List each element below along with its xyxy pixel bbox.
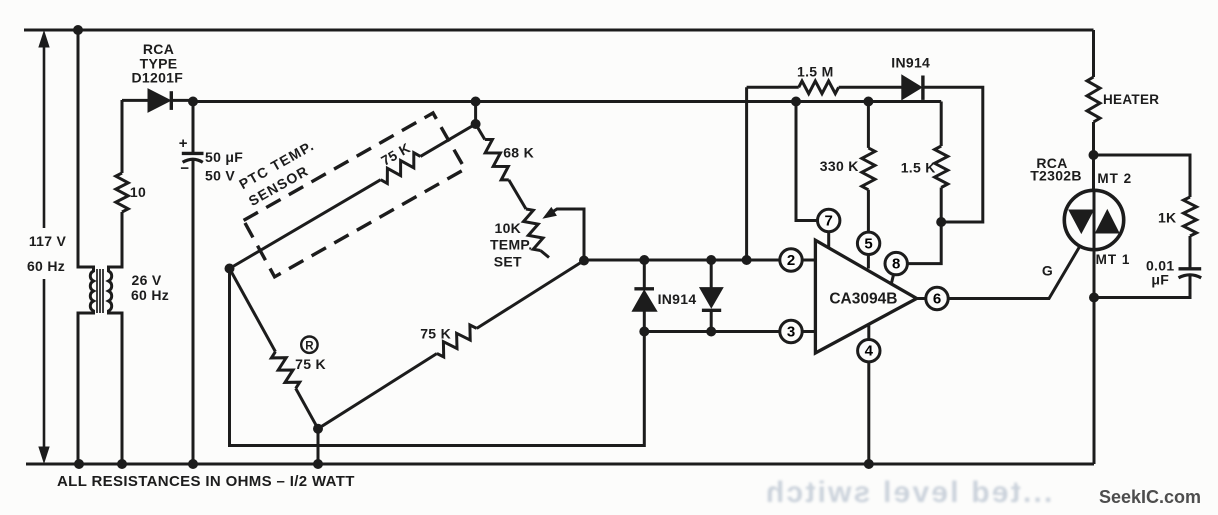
- label circled R: [301, 337, 317, 353]
- label + polarity: [179, 135, 188, 152]
- wire feedback vertical: [745, 87, 748, 260]
- wire bridge apex stub: [474, 102, 477, 125]
- svg-text:1K: 1K: [1158, 209, 1177, 225]
- junction 1.5K / pin8 / diode: [936, 217, 946, 227]
- wire rectified supply rail: [193, 100, 941, 103]
- svg-text:10K: 10K: [495, 220, 522, 236]
- wire bridge left node to pin3 line: [230, 269, 645, 446]
- label SET: [494, 254, 522, 270]
- junction pin2 / clamp 2: [706, 255, 716, 265]
- label 330 K: [820, 158, 859, 174]
- svg-text:75 K: 75 K: [420, 326, 451, 342]
- op-amp U1 CA3094B triangle: [815, 240, 916, 353]
- transformer T1 primary winding: [78, 30, 94, 464]
- PTC sensor dashed outline: [244, 113, 465, 277]
- junction ground / bridge: [313, 459, 323, 469]
- svg-text:T2302B: T2302B: [1030, 168, 1082, 184]
- svg-text:4: 4: [865, 343, 874, 360]
- pin 6: [926, 287, 948, 309]
- transformer T1 core: [97, 269, 103, 313]
- svg-text:SET: SET: [494, 254, 522, 270]
- resistor 10: [116, 100, 128, 212]
- label 50 V: [205, 168, 235, 184]
- pin 4: [858, 340, 880, 362]
- resistor 75K PTC sensor element: [230, 124, 476, 269]
- resistor 1.5M feedback: [747, 81, 902, 94]
- wire diode column to pin 3: [644, 330, 815, 333]
- label 60 Hz (primary): [27, 258, 65, 274]
- diode CR1 D1201F: [122, 89, 193, 112]
- wire pin8 branch: [892, 222, 942, 283]
- wire bridge right node to pin 2: [584, 259, 815, 262]
- svg-text:117 V: 117 V: [29, 233, 67, 249]
- svg-text:2: 2: [787, 252, 795, 269]
- svg-text:R: R: [305, 340, 314, 352]
- label 1.5 M: [797, 64, 834, 80]
- diode CR3 1N914 (clamp down): [700, 260, 723, 332]
- svg-text:3: 3: [787, 324, 795, 341]
- label MT1: [1096, 252, 1131, 267]
- svg-text:ALL RESISTANCES IN OHMS – I/2: ALL RESISTANCES IN OHMS – I/2 WATT: [57, 473, 355, 490]
- junction MT1 / snubber: [1089, 293, 1099, 303]
- junction rail2 / 330K: [863, 97, 873, 107]
- svg-text:TEMP.: TEMP.: [490, 236, 532, 252]
- junction pin2 / clamp 1: [639, 255, 649, 265]
- label 75 K (sensor): [378, 140, 413, 169]
- label 1K: [1158, 209, 1177, 225]
- junction ground / primary: [74, 459, 84, 469]
- svg-text:−: −: [180, 160, 189, 177]
- wire top supply rail: [24, 29, 1094, 32]
- label 1.5 K: [901, 159, 936, 175]
- svg-text:MT 2: MT 2: [1097, 171, 1132, 186]
- label G gate: [1042, 263, 1053, 279]
- label 0.01: [1146, 257, 1174, 273]
- label TYPE: [140, 56, 178, 72]
- svg-text:50 μF: 50 μF: [205, 149, 243, 165]
- svg-text:SeekIC.com: SeekIC.com: [1099, 487, 1201, 507]
- label 75 K (left arm): [295, 356, 326, 372]
- junction pin3 / clamp 2: [706, 327, 716, 337]
- junction pin2 / feedback: [742, 255, 752, 265]
- pin 2: [780, 249, 802, 271]
- svg-text:6: 6: [933, 291, 941, 308]
- junction bridge left node: [225, 264, 235, 274]
- label CA3094B: [829, 291, 897, 308]
- capacitor C1 50uF: [182, 102, 204, 465]
- label 75 K (right arm): [420, 326, 451, 342]
- label D1201F: [131, 70, 183, 86]
- resistor 68K: [476, 124, 526, 209]
- pin 7: [818, 209, 840, 231]
- ghost bleed-through text: [764, 476, 1053, 509]
- svg-text:D1201F: D1201F: [131, 70, 183, 86]
- label 10K: [495, 220, 522, 236]
- label IN914 (feedback): [891, 55, 930, 71]
- junction rail2 / diode-cap node: [188, 97, 198, 107]
- svg-text:IN914: IN914: [891, 55, 930, 71]
- resistor R 75K (left arm): [230, 269, 319, 429]
- svg-text:75 K: 75 K: [295, 356, 326, 372]
- resistor 1K: [1184, 197, 1197, 269]
- svg-text:...ted level switch: ...ted level switch: [764, 476, 1053, 509]
- 117V source annotation double arrow: [39, 32, 49, 463]
- label MT2: [1097, 171, 1132, 186]
- pin 5: [857, 232, 879, 254]
- label - polarity: [180, 160, 189, 177]
- wire pin4 branch: [867, 324, 870, 464]
- svg-text:1.5 M: 1.5 M: [797, 64, 834, 80]
- junction bridge bottom node: [313, 424, 323, 434]
- svg-text:60 Hz: 60 Hz: [27, 258, 65, 274]
- label 60 Hz (secondary): [131, 287, 169, 303]
- svg-text:G: G: [1042, 263, 1053, 279]
- wire feedback right corner: [923, 87, 983, 222]
- transformer T1 secondary winding: [109, 212, 123, 464]
- triac Q1 triangles: [1069, 210, 1119, 233]
- capacitor C2 0.01uF: [1094, 269, 1201, 298]
- svg-text:10: 10: [130, 184, 146, 200]
- label HEATER: [1103, 92, 1159, 107]
- junction pin3 / clamp 1: [639, 327, 649, 337]
- svg-text:26 V: 26 V: [132, 272, 162, 288]
- potentiometer 10K temp set: [524, 209, 550, 258]
- junction rail2 / pin7: [791, 97, 801, 107]
- resistor 330K: [862, 102, 875, 269]
- svg-text:MT 1: MT 1: [1096, 252, 1131, 267]
- junction heater / snubber: [1089, 150, 1099, 160]
- wire pin6 output: [917, 247, 1080, 299]
- label 117 V: [29, 233, 67, 249]
- label uF: [1151, 271, 1169, 287]
- label IN914 (clamps): [658, 291, 697, 307]
- diode CR4 IN914 feedback: [902, 75, 923, 100]
- wire MT1 to ground rail: [1093, 250, 1096, 465]
- wire pin7 branch: [796, 102, 829, 249]
- label SENSOR: [246, 162, 312, 209]
- wire snubber top: [1094, 155, 1191, 197]
- svg-text:μF: μF: [1151, 271, 1169, 287]
- label 50 uF: [205, 149, 243, 165]
- wire bridge bottom node to ground rail: [317, 429, 320, 464]
- svg-text:+: +: [179, 135, 188, 152]
- label RCA: [143, 41, 174, 57]
- junction ground / cap C1: [188, 459, 198, 469]
- wire bottom return rail: [26, 463, 1094, 466]
- svg-text:5: 5: [864, 235, 872, 252]
- junction rail2 / bridge: [471, 97, 481, 107]
- junction bridge right node: [579, 256, 589, 266]
- label PTC TEMP.: [236, 137, 317, 192]
- svg-text:IN914: IN914: [658, 291, 697, 307]
- svg-text:330 K: 330 K: [820, 158, 859, 174]
- svg-text:CA3094B: CA3094B: [829, 291, 897, 308]
- label RCA (triac): [1036, 155, 1067, 171]
- svg-text:7: 7: [825, 213, 833, 230]
- label TEMP.: [490, 236, 532, 252]
- label 26 V: [132, 272, 162, 288]
- potentiometer wiper arrow: [544, 208, 585, 261]
- junction bridge apex: [471, 119, 481, 129]
- svg-text:60 Hz: 60 Hz: [131, 287, 169, 303]
- junction top rail / primary: [73, 25, 83, 35]
- label 68 K: [503, 145, 534, 161]
- svg-text:8: 8: [892, 256, 900, 273]
- diode CR2 1N914 (clamp up): [632, 260, 657, 332]
- triac Q1 circle: [1064, 190, 1123, 249]
- junction ground / pin4: [864, 459, 874, 469]
- label 10: [130, 184, 146, 200]
- resistor 1.5K: [935, 102, 948, 223]
- SeekIC.com watermark: [1099, 487, 1201, 507]
- pin 3: [780, 320, 802, 342]
- svg-text:HEATER: HEATER: [1103, 92, 1159, 107]
- resistor HEATER: [1087, 30, 1100, 191]
- note all resistances: [57, 473, 355, 490]
- svg-text:68 K: 68 K: [503, 145, 534, 161]
- svg-text:1.5 K: 1.5 K: [901, 159, 936, 175]
- label T2302B: [1030, 168, 1082, 184]
- junction ground / secondary: [117, 459, 127, 469]
- resistor 75K (right arm): [318, 261, 584, 429]
- svg-text:50 V: 50 V: [205, 168, 235, 184]
- pin 8: [885, 252, 907, 274]
